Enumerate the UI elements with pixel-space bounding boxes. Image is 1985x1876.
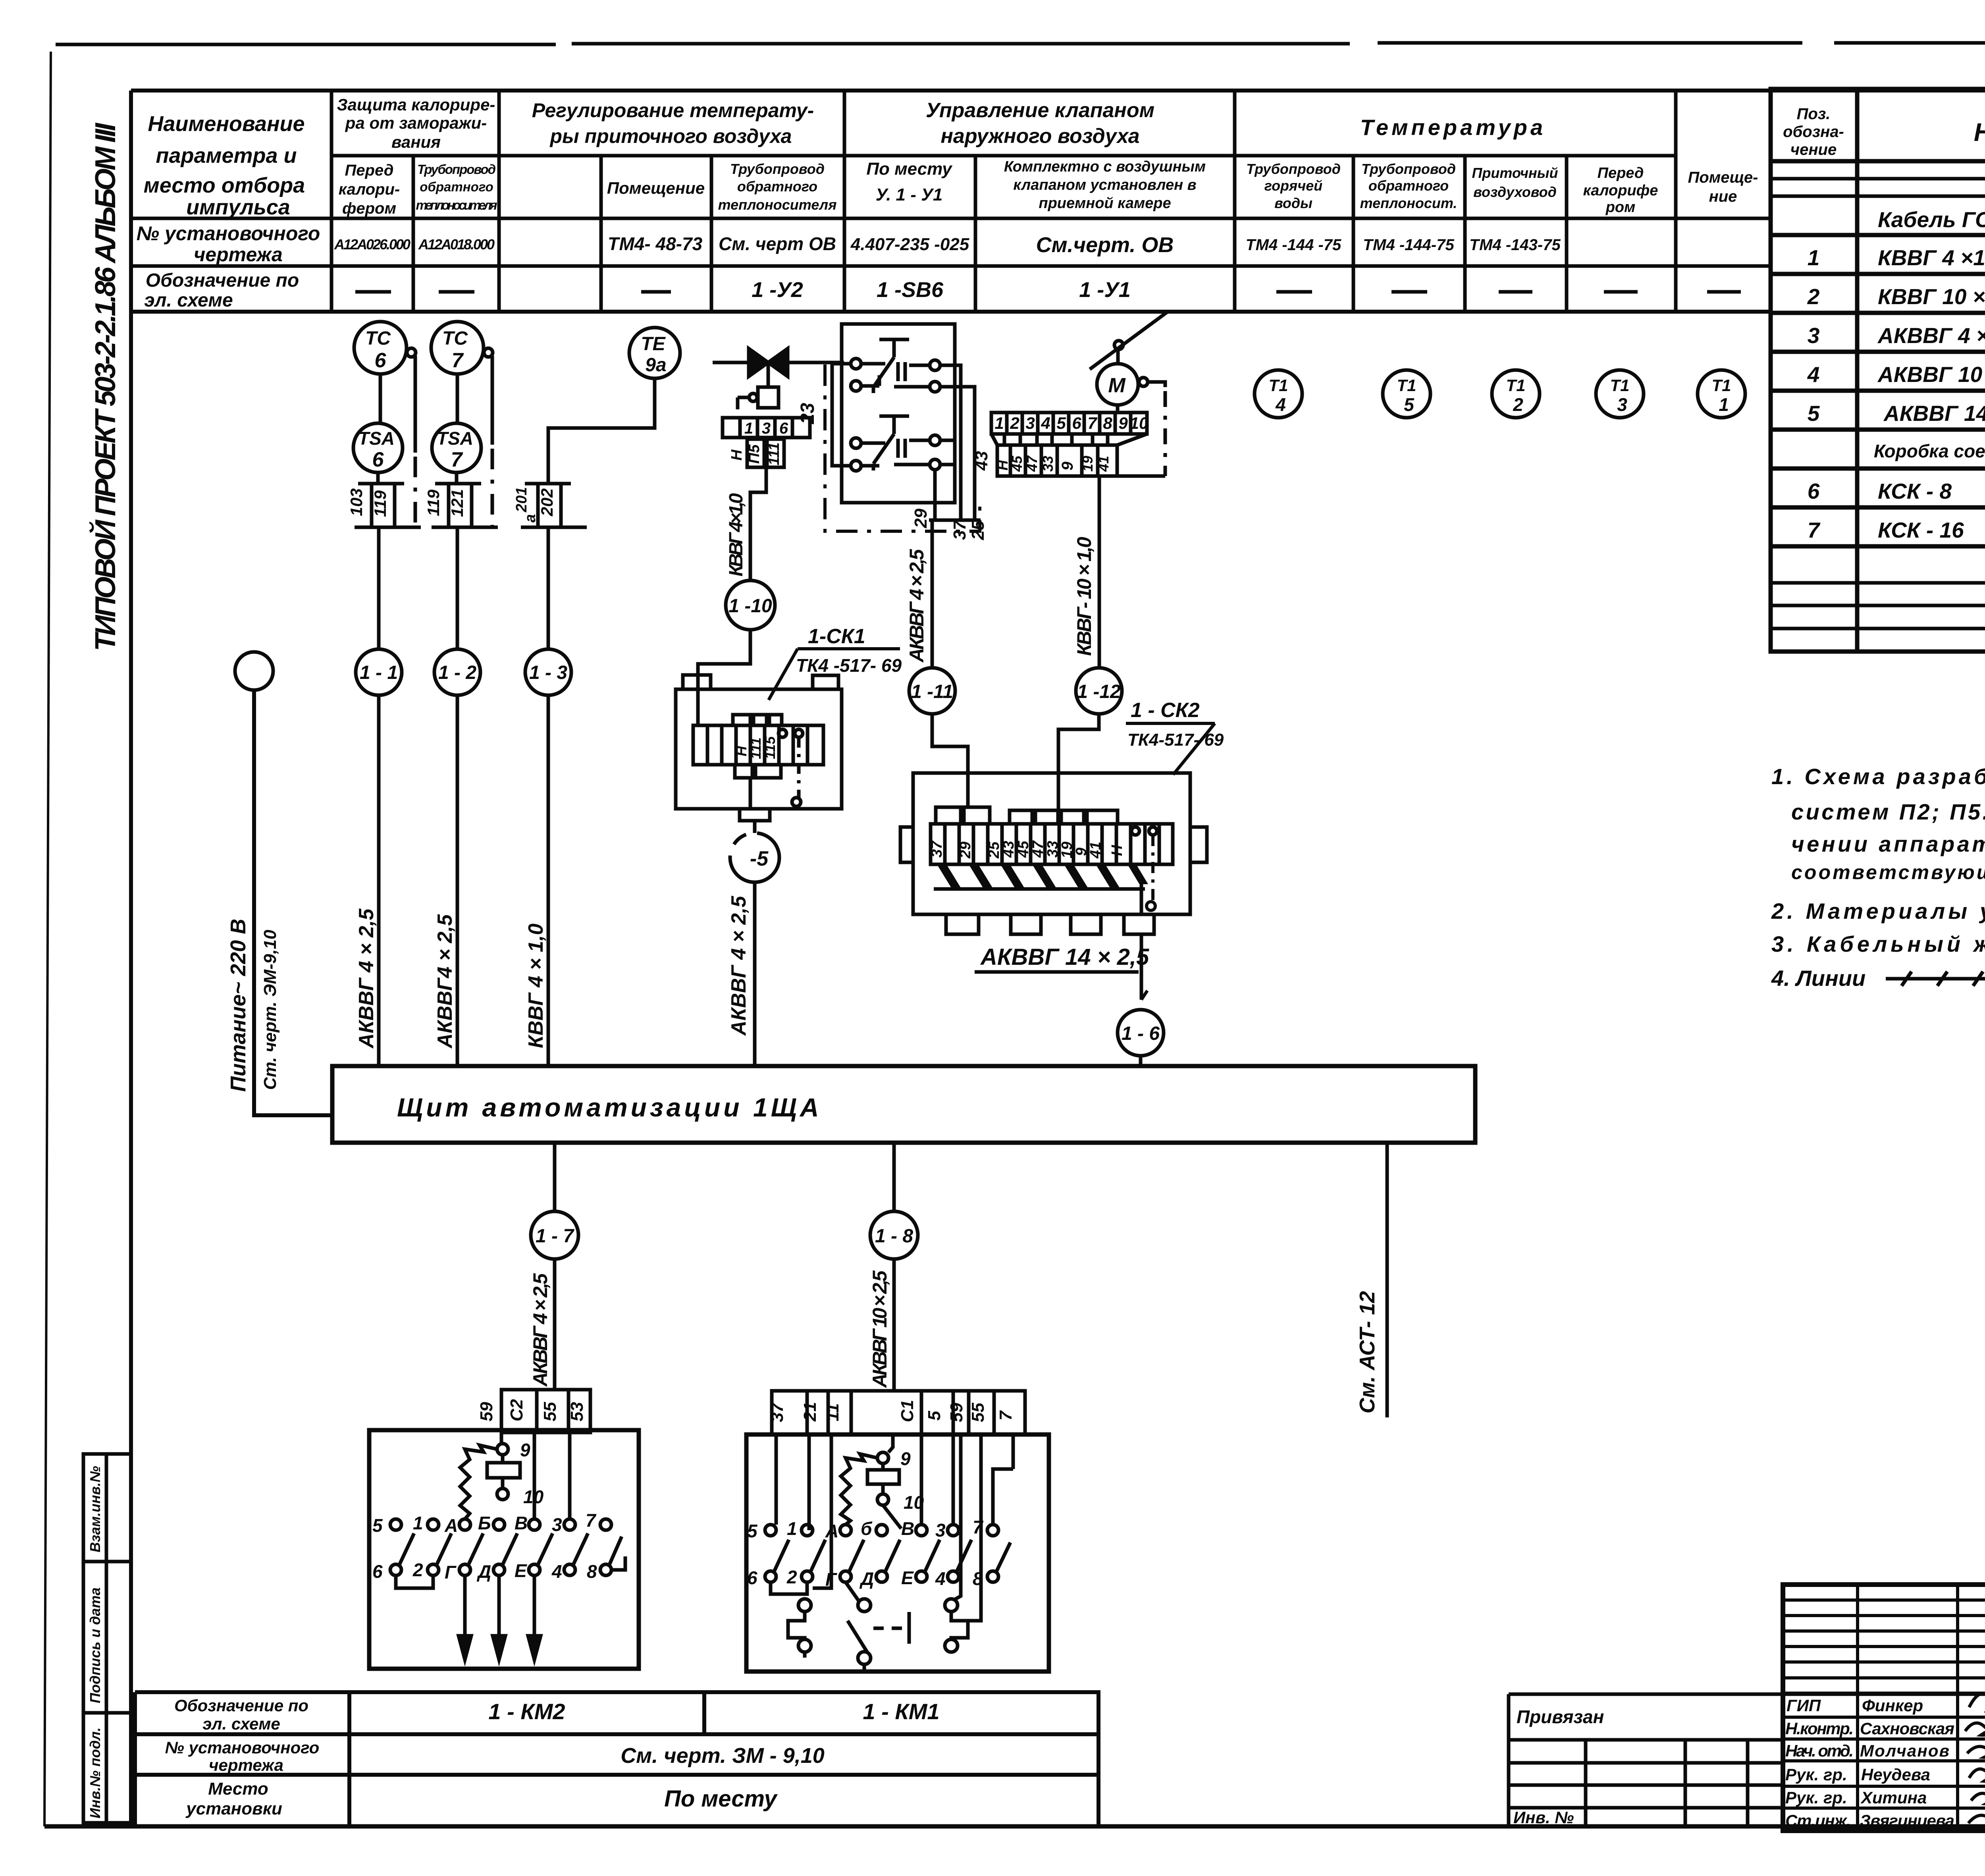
wire strip to 1-12 [1098, 476, 1101, 668]
link 6-2 [396, 1575, 433, 1588]
svg-text:Д: Д [859, 1568, 874, 1589]
svg-text:эл. схеме: эл. схеме [202, 1714, 280, 1733]
svg-text:37: 37 [929, 840, 945, 858]
svg-text:Е: Е [901, 1568, 914, 1588]
svg-text:КСК - 16: КСК - 16 [1878, 518, 1964, 542]
svg-text:АКВВГ 4 × 2,5: АКВВГ 4 × 2,5 [355, 908, 378, 1049]
svg-text:5: 5 [1404, 394, 1415, 415]
table outer/rows [131, 310, 1771, 314]
svg-text:ТС: ТС [442, 328, 468, 349]
svg-text:Неудева: Неудева [1861, 1765, 1930, 1784]
svg-text:Рук. гр.: Рук. гр. [1785, 1765, 1847, 1784]
svg-text:Коробка соединительная ТУ36.: Коробка соединительная ТУ36. 1753 - 75 [1874, 441, 1985, 461]
svg-text:КВВГ- 10 × 1,0: КВВГ- 10 × 1,0 [1073, 537, 1095, 656]
thermometer T1/2 [1492, 370, 1540, 418]
cable circle 1-8 [870, 1211, 918, 1259]
cable circle 1-7 [531, 1211, 578, 1259]
svg-text:3: 3 [1808, 323, 1820, 348]
contact circles upper row [390, 1519, 401, 1530]
contactor 1-KM2 terminal row [501, 1390, 590, 1433]
svg-text:А12А018.000: А12А018.000 [418, 236, 495, 253]
svg-text:Защита калорире-: Защита калорире- [337, 95, 495, 114]
svg-text:соответствующий номеру-приточн: соответствующий номеру-приточной системы… [1791, 861, 1985, 883]
svg-text:1: 1 [413, 1513, 423, 1533]
svg-text:Трубопровод: Трубопровод [730, 161, 825, 177]
svg-text:Т1: Т1 [1397, 376, 1416, 395]
svg-text:1 - 6: 1 - 6 [1122, 1023, 1160, 1044]
svg-text:А12А026.000: А12А026.000 [334, 236, 410, 253]
svg-text:См.черт. ОВ: См.черт. ОВ [1036, 233, 1174, 257]
signature squiggles [1965, 1685, 1985, 1826]
svg-text:2: 2 [1010, 414, 1019, 432]
svg-text:наружного воздуха: наружного воздуха [940, 125, 1139, 148]
bottom shadow hatch of strip [937, 864, 1148, 889]
svg-text:1 -11: 1 -11 [911, 681, 953, 702]
svg-text:По месту: По месту [866, 159, 953, 179]
sensor TC6 [354, 322, 416, 374]
wire 1-5 to panel [753, 882, 757, 1066]
svg-text:6: 6 [1808, 479, 1820, 503]
svg-text:В: В [901, 1518, 914, 1539]
svg-text:ние: ние [1709, 188, 1737, 205]
svg-text:АКВВГ 4 × 2,5: АКВВГ 4 × 2,5 [1877, 323, 1985, 348]
motor M [1090, 312, 1167, 413]
svg-text:1 - КМ1: 1 - КМ1 [863, 1699, 939, 1724]
terminal strip 1..10 [991, 413, 1165, 476]
svg-text:клапаном установлен в: клапаном установлен в [1013, 177, 1196, 193]
valve 1-У2 [713, 349, 844, 417]
svg-text:7: 7 [973, 1517, 984, 1537]
svg-text:59: 59 [947, 1403, 966, 1422]
svg-text:Хитина: Хитина [1860, 1788, 1927, 1807]
svg-text:АКВВГ4 × 2,5: АКВВГ4 × 2,5 [434, 914, 457, 1049]
svg-text:Трубопровод: Трубопровод [1361, 161, 1456, 177]
svg-text:111: 111 [748, 737, 764, 759]
svg-text:4: 4 [935, 1568, 946, 1589]
svg-text:41: 41 [1095, 456, 1112, 472]
svg-text:С2: С2 [507, 1399, 526, 1421]
svg-text:47: 47 [1024, 455, 1040, 472]
svg-text:ТМ4 -143-75: ТМ4 -143-75 [1469, 236, 1561, 254]
svg-text:21: 21 [800, 1402, 820, 1422]
svg-text:Финкер: Финкер [1862, 1696, 1923, 1715]
svg-text:1 -10: 1 -10 [728, 596, 772, 617]
svg-text:Помещение: Помещение [607, 179, 705, 197]
svg-text:Наименование: Наименование [1974, 118, 1985, 147]
wire 1-12 to CK2 [1058, 714, 1099, 810]
wires from boxes to contacts [776, 1434, 1013, 1588]
svg-text:Наименование: Наименование [148, 112, 304, 136]
svg-text:Молчанов: Молчанов [1860, 1741, 1949, 1760]
svg-text:ТЕ: ТЕ [641, 334, 666, 355]
terminal box 103/119 [355, 472, 421, 527]
bottom feet [946, 914, 979, 934]
svg-text:параметра и: параметра и [156, 144, 297, 168]
wire 1-1 to panel [377, 695, 381, 1066]
svg-text:9: 9 [520, 1440, 530, 1460]
terminal box 119/121 [432, 472, 498, 527]
svg-text:Щит автоматизации 1ЩА: Щит автоматизации 1ЩА [397, 1093, 822, 1122]
contact circles lower row [765, 1571, 776, 1582]
svg-text:Перед: Перед [345, 162, 394, 179]
svg-text:6: 6 [779, 420, 788, 437]
svg-text:10: 10 [1130, 414, 1149, 432]
svg-text:АКВВГ 14 × 2,5: АКВВГ 14 × 2,5 [980, 944, 1149, 970]
svg-text:Д: Д [476, 1561, 491, 1582]
svg-text:Е: Е [515, 1560, 527, 1581]
svg-text:АКВВГ 10 × 2,5: АКВВГ 10 × 2,5 [869, 1270, 891, 1388]
svg-text:фером: фером [342, 200, 396, 217]
svg-text:обратного: обратного [1368, 177, 1449, 194]
svg-text:Управление клапаном: Управление клапаном [926, 99, 1154, 122]
svg-text:1 -У1: 1 -У1 [1079, 278, 1131, 302]
svg-text:АКВВГ 4 × 2,5: АКВВГ 4 × 2,5 [727, 895, 750, 1036]
svg-text:ТМ4- 48-73: ТМ4- 48-73 [608, 233, 703, 254]
svg-text:ТС: ТС [365, 328, 391, 349]
svg-text:ры приточного воздуха: ры приточного воздуха [549, 125, 792, 147]
svg-text:1 - 7: 1 - 7 [536, 1226, 574, 1247]
svg-text:Н: Н [994, 460, 1011, 470]
svg-text:1 - 3: 1 - 3 [529, 662, 567, 683]
svg-text:ТМ4 -144-75: ТМ4 -144-75 [1363, 236, 1454, 254]
svg-text:воздуховод: воздуховод [1473, 184, 1557, 200]
wires to В and 3 [534, 1433, 570, 1519]
svg-text:119: 119 [424, 489, 443, 516]
thermometer T1/5 [1383, 370, 1430, 418]
svg-text:Б: Б [478, 1513, 491, 1533]
svg-text:воды: воды [1274, 195, 1312, 211]
capillary line TC7 [491, 356, 494, 445]
svg-text:обратного: обратного [420, 179, 493, 194]
svg-text:ра от заморажи-: ра от заморажи- [345, 114, 487, 132]
wire CK1 out [749, 778, 752, 809]
contact circles lower row [390, 1564, 401, 1575]
svg-text:7: 7 [452, 349, 464, 372]
dashes in обозначение row [355, 290, 1741, 294]
wire 59 to coil terminal 9 [500, 1433, 503, 1444]
svg-text:обозна-: обозна- [1783, 123, 1844, 141]
svg-text:чении аппаратуры и маркиро: чении аппаратуры и маркировке кабелей на… [1791, 831, 1985, 856]
wire 1-2 to panel [456, 695, 459, 1066]
thermometer T1/1 [1698, 370, 1745, 418]
svg-text:Г: Г [825, 1569, 837, 1590]
svg-text:1. Схема разработана для си: 1. Схема разработана для системы П1 и пр… [1771, 764, 1985, 789]
svg-text:29: 29 [911, 509, 931, 528]
table columns [330, 91, 333, 312]
svg-text:Ст. черт. ЭМ-9,10: Ст. черт. ЭМ-9,10 [260, 929, 280, 1090]
svg-text:1 -SВ6: 1 -SВ6 [877, 278, 944, 302]
svg-text:9: 9 [1118, 414, 1128, 432]
cable circle 1-5 [730, 833, 779, 882]
svg-text:4. Линии: 4. Линии [1771, 966, 1866, 991]
svg-text:ТSА: ТSА [437, 428, 473, 449]
contact arms [774, 1540, 1010, 1572]
svg-text:См. АСТ- 12: См. АСТ- 12 [1355, 1291, 1379, 1413]
down arrows [465, 1575, 534, 1642]
svg-text:-5: -5 [750, 847, 769, 870]
svg-text:Н: Н [1109, 844, 1125, 856]
svg-text:П5: П5 [746, 444, 763, 464]
svg-text:6: 6 [1072, 414, 1081, 432]
automation panel 1ЩА [332, 1066, 1475, 1143]
svg-text:Н: Н [733, 746, 750, 756]
left bracket wire 23 [832, 364, 851, 466]
wire panel to АСТ-12 [1386, 1143, 1389, 1417]
terminal box 201a/202 [521, 484, 587, 527]
svg-text:33: 33 [1040, 456, 1056, 472]
svg-text:№ установочного: № установочного [137, 222, 320, 245]
svg-text:Подпись и дата: Подпись и дата [87, 1587, 103, 1703]
svg-text:ТК4-517- 69: ТК4-517- 69 [1127, 730, 1224, 750]
coil terminal 9 [500, 1433, 503, 1444]
contact circles upper row [765, 1525, 776, 1536]
cable circle 1-2 [456, 527, 459, 650]
svg-text:3: 3 [552, 1514, 562, 1535]
cable circle 1-1 [377, 527, 381, 650]
svg-text:5: 5 [925, 1411, 944, 1421]
demolition dash-dot frame [825, 364, 980, 531]
svg-text:а: а [522, 514, 539, 523]
wire 1-6 to panel [1139, 1056, 1143, 1066]
sheet top edge [56, 42, 1985, 44]
svg-text:Сахновская: Сахновская [1860, 1719, 1954, 1738]
drawing frame top [131, 89, 1985, 93]
wire from 10 to Б [883, 1505, 901, 1529]
svg-text:По месту: По месту [664, 1786, 778, 1812]
svg-text:КВВГ 4×1,0: КВВГ 4×1,0 [726, 493, 747, 576]
svg-text:1 -У2: 1 -У2 [752, 278, 803, 302]
svg-text:Поз.: Поз. [1797, 105, 1831, 123]
wire 7-8 hook [611, 1556, 625, 1570]
svg-text:чертежа: чертежа [194, 243, 283, 266]
demolition dash inside CK2 [1151, 835, 1154, 901]
svg-text:Температура: Температура [1360, 115, 1546, 140]
svg-text:3: 3 [1025, 414, 1035, 432]
contactor 1-KM1 terminal row [772, 1391, 1025, 1434]
svg-text:АКВВГ 4 × 2,5: АКВВГ 4 × 2,5 [529, 1273, 551, 1387]
svg-text:6: 6 [372, 1561, 383, 1582]
svg-text:ГИП: ГИП [1786, 1696, 1821, 1715]
title block [1783, 1585, 1985, 1831]
capillary line TC6 [414, 356, 417, 453]
svg-text:АКВВГ 14 × 2,5: АКВВГ 14 × 2,5 [1883, 401, 1985, 426]
wire 1-8 to KM1 [892, 1259, 896, 1391]
svg-text:53: 53 [567, 1402, 587, 1421]
svg-text:8: 8 [1103, 414, 1112, 432]
svg-text:ТМ4 -144 -75: ТМ4 -144 -75 [1246, 236, 1341, 254]
svg-text:1: 1 [1808, 245, 1820, 270]
svg-text:202: 202 [538, 488, 556, 517]
svg-text:ром: ром [1605, 199, 1636, 216]
svg-text:121: 121 [448, 489, 466, 517]
svg-text:119: 119 [371, 490, 389, 517]
contact arms [399, 1533, 622, 1566]
svg-text:10: 10 [904, 1492, 924, 1513]
sheet left edge [44, 52, 51, 1826]
svg-text:41: 41 [1087, 842, 1104, 859]
svg-text:9а: 9а [645, 355, 666, 376]
svg-text:КСК - 8: КСК - 8 [1878, 479, 1952, 503]
svg-text:Перед: Перед [1598, 165, 1644, 181]
svg-text:5: 5 [1808, 401, 1820, 426]
svg-text:201: 201 [513, 487, 530, 513]
svg-text:См. черт. ЗМ - 9,10: См. черт. ЗМ - 9,10 [621, 1744, 825, 1768]
svg-text:КВВГ 4 ×1,0: КВВГ 4 ×1,0 [1878, 245, 1985, 270]
svg-text:43: 43 [972, 451, 991, 471]
cable circle 1-6 [1118, 1010, 1164, 1056]
svg-text:47: 47 [1030, 840, 1046, 858]
wire 1-10 to 1-CK1 [698, 630, 750, 725]
lower NC contact [873, 416, 909, 470]
svg-text:ТК4 -517- 69: ТК4 -517- 69 [796, 655, 902, 676]
wire relay to 1-11 [931, 520, 934, 668]
thermal zigzag [841, 1454, 877, 1525]
relay box 1-У1 [832, 324, 981, 520]
svg-text:29: 29 [957, 842, 974, 859]
svg-text:Место: Место [208, 1779, 268, 1799]
svg-text:6: 6 [747, 1568, 757, 1588]
svg-text:импульса: импульса [186, 195, 290, 219]
svg-text:3. Кабельный журнал см.: 3. Кабельный журнал см. АСТ-11. [1771, 931, 1985, 956]
svg-text:9: 9 [1059, 461, 1076, 470]
svg-text:1 - 1: 1 - 1 [360, 662, 398, 683]
svg-text:вания: вания [391, 133, 441, 151]
privyazan table [1509, 1694, 1783, 1826]
svg-text:115: 115 [762, 736, 778, 759]
svg-text:Помеще-: Помеще- [1688, 169, 1758, 186]
svg-text:ТSА: ТSА [358, 428, 395, 449]
svg-text:1: 1 [787, 1518, 797, 1539]
svg-text:теплоносителя: теплоносителя [416, 198, 497, 212]
demolition dash-dot wire right of M [1164, 391, 1167, 476]
svg-text:6: 6 [375, 349, 387, 372]
svg-text:7: 7 [1808, 518, 1821, 542]
contactor 1-KM1 box [746, 1434, 1049, 1672]
svg-text:Т1: Т1 [1506, 376, 1525, 395]
svg-text:обратного: обратного [737, 178, 817, 195]
svg-text:Н.контр.: Н.контр. [1785, 1719, 1854, 1738]
svg-text:3: 3 [1617, 394, 1627, 415]
svg-text:Привязан: Привязан [1517, 1706, 1604, 1727]
svg-text:калори-: калори- [339, 181, 400, 198]
sensor TC7 [431, 322, 493, 374]
svg-text:7: 7 [996, 1410, 1016, 1421]
svg-text:Рук. гр.: Рук. гр. [1785, 1788, 1847, 1807]
svg-text:Питание~ 220 В: Питание~ 220 В [226, 919, 250, 1092]
svg-text:1: 1 [744, 420, 753, 437]
svg-text:Н: Н [728, 449, 745, 461]
svg-text:Инв.№ подл.: Инв.№ подл. [87, 1728, 103, 1818]
thermometer T1/4 [1255, 370, 1302, 418]
power supply node [235, 652, 273, 690]
svg-text:45: 45 [1015, 841, 1032, 858]
svg-text:7: 7 [451, 448, 463, 471]
wire TE9a to terminals [548, 378, 655, 484]
svg-text:23: 23 [797, 403, 818, 424]
valve terminal strip 1/3/6 [723, 418, 810, 467]
svg-text:Взам.инв.№: Взам.инв.№ [87, 1466, 103, 1552]
svg-text:Звягинцева: Звягинцева [1860, 1811, 1954, 1830]
svg-text:эл. схеме: эл. схеме [144, 290, 233, 311]
drawing frame left [129, 91, 133, 1826]
thermometer T1/3 [1596, 370, 1644, 418]
sensor TSA6 [353, 423, 403, 472]
svg-text:37: 37 [950, 520, 969, 540]
connector box 1-CK1 [676, 675, 842, 809]
svg-text:4: 4 [1041, 414, 1050, 432]
svg-text:Кабель ГОСТ 1508 -78: Кабель ГОСТ 1508 -78 [1878, 207, 1985, 232]
svg-text:11: 11 [823, 1403, 842, 1421]
svg-text:25: 25 [968, 521, 988, 540]
svg-text:М: М [1108, 374, 1126, 397]
svg-text:См. черт ОВ: См. черт ОВ [719, 233, 836, 254]
svg-text:7: 7 [1087, 414, 1097, 432]
svg-text:АКВВГ 4 × 2,5: АКВВГ 4 × 2,5 [906, 549, 928, 663]
wire CK2 out [1141, 876, 1141, 1010]
svg-text:приемной камере: приемной камере [1039, 195, 1171, 212]
bottom designation table [135, 1692, 1098, 1826]
internal wires CK2 [968, 799, 1058, 810]
svg-text:Трубопровод: Трубопровод [1246, 161, 1341, 177]
svg-text:19: 19 [1079, 456, 1096, 472]
demolition line sample in note 4 [1886, 972, 1985, 986]
lower extra contacts [798, 1599, 811, 1612]
left stamp boxes [83, 1454, 131, 1823]
svg-text:б: б [861, 1518, 873, 1539]
svg-text:37: 37 [767, 1402, 787, 1422]
svg-text:Обозначение по: Обозначение по [146, 270, 299, 291]
svg-text:7: 7 [586, 1510, 597, 1531]
svg-text:В: В [515, 1513, 528, 1533]
svg-text:Трубопровод: Трубопровод [417, 162, 496, 177]
svg-text:4: 4 [1275, 394, 1286, 415]
wire 1-7 to KM2 [553, 1259, 557, 1390]
svg-text:8: 8 [587, 1561, 597, 1582]
wire panel to 1-8 [892, 1143, 896, 1211]
svg-text:5: 5 [1056, 414, 1066, 432]
wire 1-3 to panel [547, 695, 550, 1066]
power wire to panel [254, 690, 332, 1115]
sensor TSA7 [432, 423, 481, 472]
svg-text:Г: Г [445, 1562, 457, 1583]
relay coil [487, 1463, 520, 1478]
svg-text:1 - 2: 1 - 2 [438, 662, 476, 683]
svg-text:№ установочного: № установочного [165, 1738, 320, 1757]
svg-text:1: 1 [1719, 394, 1729, 415]
svg-text:8: 8 [973, 1568, 983, 1589]
cable circle 1-3 [547, 527, 550, 650]
svg-text:калорифе: калорифе [1583, 182, 1658, 199]
cable circle 1-10 [726, 580, 775, 630]
svg-text:5: 5 [372, 1515, 383, 1536]
svg-text:У. 1 - У1: У. 1 - У1 [876, 185, 943, 204]
sheet bottom edge [44, 1824, 1985, 1829]
svg-text:Приточный: Приточный [1472, 165, 1558, 181]
svg-text:55: 55 [540, 1402, 560, 1421]
svg-text:КВВГ 10 ×1,0: КВВГ 10 ×1,0 [1878, 284, 1985, 309]
svg-text:2: 2 [1807, 284, 1820, 309]
svg-text:Инв. №: Инв. № [1513, 1808, 1574, 1827]
cable circle 1-12 [1076, 668, 1122, 714]
svg-text:Обозначение по: Обозначение по [174, 1696, 308, 1715]
wire TC7-TSA7 [456, 374, 459, 423]
svg-text:103: 103 [347, 488, 366, 516]
svg-text:59: 59 [477, 1402, 496, 1421]
svg-text:111: 111 [766, 442, 782, 465]
svg-text:1-СК1: 1-СК1 [808, 625, 865, 648]
svg-text:1 -12: 1 -12 [1077, 681, 1121, 702]
svg-text:чение: чение [1790, 141, 1837, 158]
